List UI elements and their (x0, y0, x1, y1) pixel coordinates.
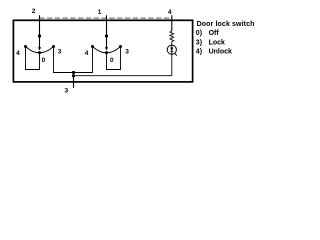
switch S2 wiper arc (93, 47, 121, 53)
resistor R1 zigzag (170, 31, 174, 42)
svg-text:1: 1 (98, 9, 102, 16)
lamp LED circle (167, 45, 176, 54)
wire lamp down (171, 54, 173, 76)
wire S1 contact4 to U-bottom (26, 48, 40, 70)
svg-text:Lock: Lock (209, 39, 225, 46)
wire resistor to lamp (171, 42, 173, 46)
svg-text:2: 2 (32, 8, 36, 15)
svg-text:4: 4 (16, 50, 20, 57)
svg-text:0: 0 (42, 57, 46, 64)
wiper arrowhead switch S2 (105, 47, 108, 50)
junction dot on wire 2 (38, 34, 41, 37)
switch S1 contact 0 dot (38, 51, 41, 54)
LED diode triangle (170, 48, 173, 52)
svg-text:4: 4 (168, 9, 172, 16)
svg-text:4): 4) (196, 48, 202, 55)
svg-text:3: 3 (64, 88, 68, 95)
wire S2 contact0 to U-bottom to contact3 (107, 48, 121, 70)
switch S1 contact 3 dot (52, 45, 55, 48)
svg-text:3): 3) (196, 39, 202, 46)
svg-text:Door lock switch: Door lock switch (197, 21, 255, 28)
LED cathode bar (170, 50, 173, 52)
svg-text:3: 3 (58, 49, 62, 56)
wire output down to terminal 3 (73, 73, 75, 89)
svg-text:Off: Off (209, 30, 220, 37)
wire S1 contact3 down and link to S2 contact4 (54, 48, 93, 73)
junction dot on wire 1 (105, 34, 108, 37)
switch S1 contact 4 dot (24, 45, 27, 48)
wire terminal 2 (39, 15, 41, 47)
wiper arrowhead switch S1 (38, 47, 41, 50)
svg-text:3: 3 (125, 49, 129, 56)
svg-text:0): 0) (196, 30, 202, 37)
mechanical linkage dashed line (39, 17, 172, 19)
svg-text:4: 4 (85, 50, 89, 57)
switch S1 wiper arc (26, 47, 54, 53)
wire terminal 1 (106, 15, 108, 47)
switch unit box (13, 20, 192, 82)
switch S2 contact 4 dot (91, 45, 94, 48)
junction dot link/output (72, 71, 75, 74)
svg-text:0: 0 (110, 57, 114, 64)
svg-text:Unlock: Unlock (209, 48, 232, 55)
wire lamp return to junction (74, 75, 172, 77)
switch S2 contact 0 dot (105, 51, 108, 54)
switch S2 contact 3 dot (119, 45, 122, 48)
junction dot lamp return (72, 74, 75, 77)
LED wire through circle (171, 46, 173, 55)
LED tick mark (175, 53, 177, 55)
wire terminal 4 to resistor (171, 15, 173, 31)
